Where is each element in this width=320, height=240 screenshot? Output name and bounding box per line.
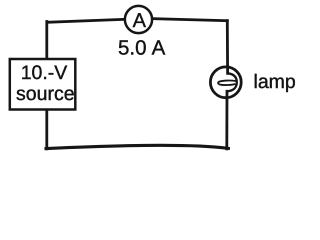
svg-text:5.0: 5.0 <box>118 36 147 59</box>
wire top-left segment <box>47 19 125 22</box>
wire left vertical upper <box>45 22 48 59</box>
lamp filament arc <box>227 73 237 91</box>
wire right vertical lower <box>225 91 228 149</box>
wire left vertical lower <box>45 110 48 149</box>
source B1 <box>10 59 76 110</box>
svg-text:lamp: lamp <box>254 71 296 93</box>
svg-text:A: A <box>152 36 166 59</box>
lamp DS1 <box>210 67 241 98</box>
svg-text:A: A <box>133 10 147 32</box>
lamp filament loop <box>218 81 235 86</box>
ammeter U1 <box>125 6 152 33</box>
wire top-right segment <box>153 19 228 21</box>
wire right vertical upper <box>226 21 229 74</box>
wire bottom <box>46 145 228 148</box>
svg-text:source: source <box>16 83 75 105</box>
svg-text:10.-V: 10.-V <box>21 62 68 84</box>
